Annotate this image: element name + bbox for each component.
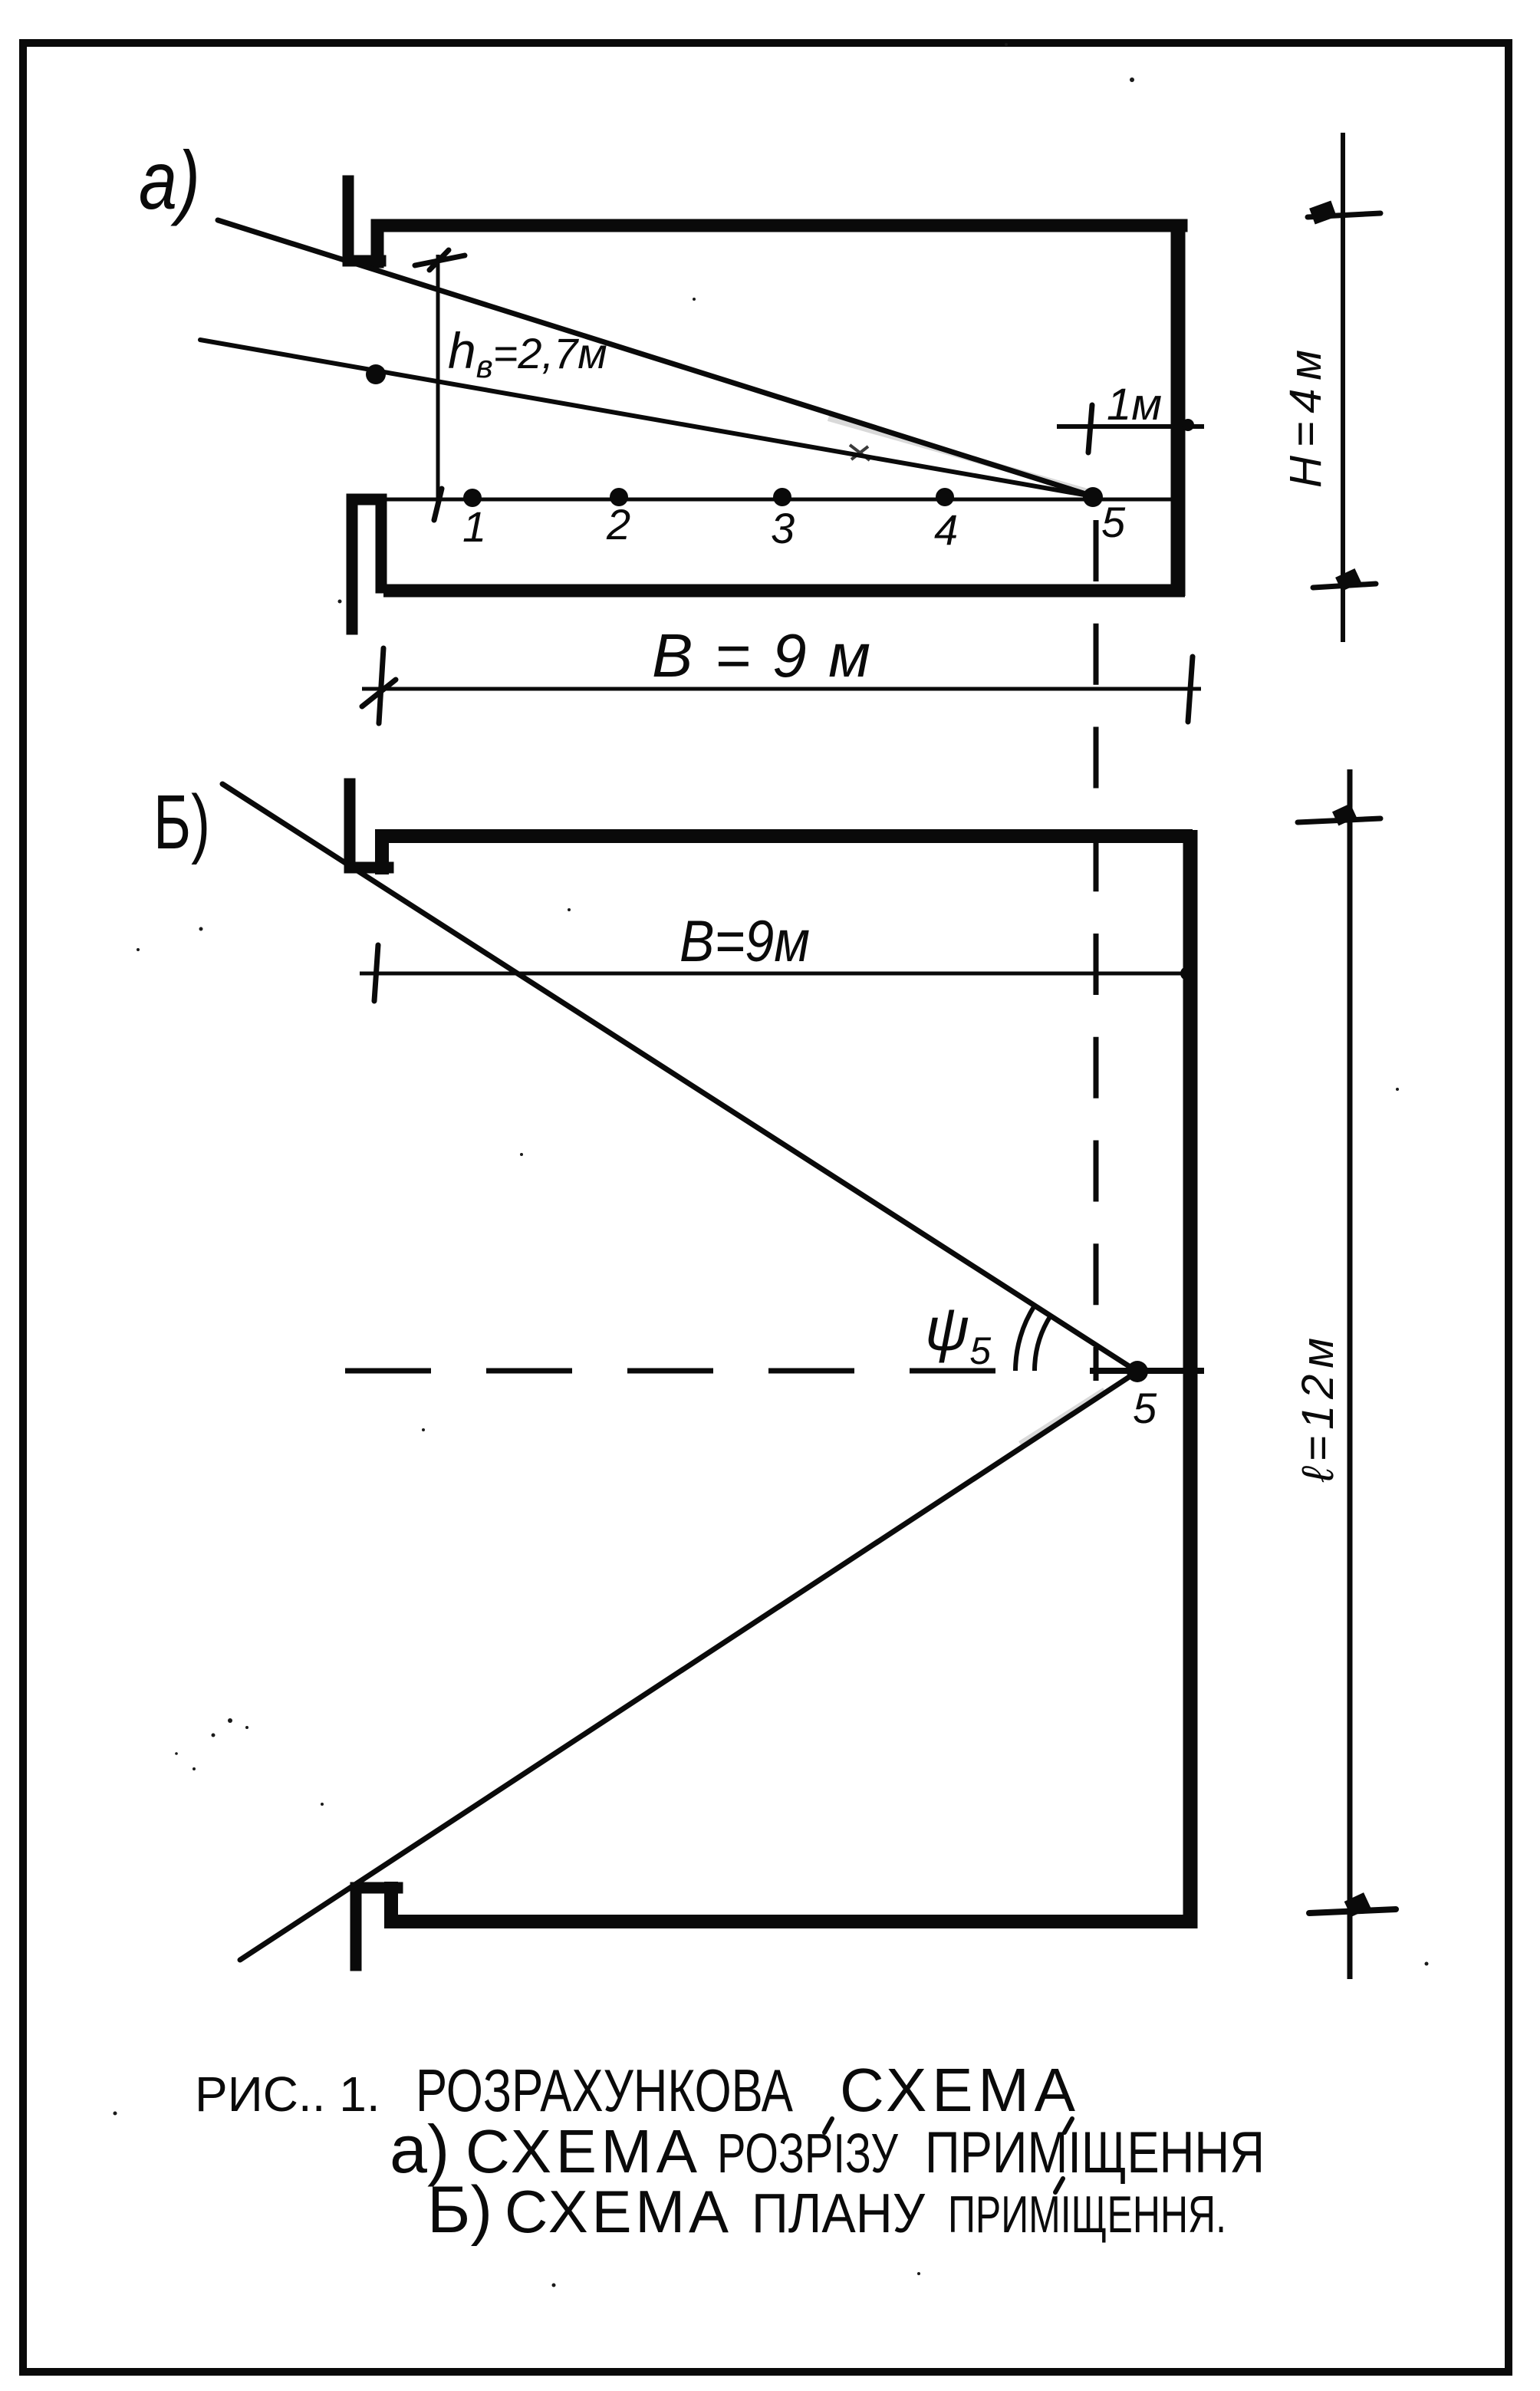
eye point dot on lower sight line [366,364,386,384]
svg-text:Б): Б) [427,2173,492,2247]
section right wall [1171,221,1186,596]
section B=9m dimension line [362,687,1201,691]
1m left tick [1088,405,1092,453]
l bottom tick [1309,1909,1396,1913]
l top tick [1298,818,1380,822]
svg-text:hв=2,7м: hв=2,7м [448,322,607,384]
section floor line [383,498,1176,502]
svg-text:а): а) [139,133,200,226]
l bottom tick blob [1344,1892,1371,1917]
angle arc outer [1015,1306,1035,1371]
1m dimension line [1057,424,1204,429]
hB bottom tick [434,489,442,520]
l top tick blob [1332,803,1357,825]
lower sight line [200,340,1093,496]
section window head jamb [348,181,380,261]
angle arc inner [1035,1316,1051,1371]
H bottom tick blob [1335,568,1361,591]
svg-text:РОЗРІЗУ: РОЗРІЗУ [717,2123,899,2185]
svg-text:Б): Б) [153,779,210,865]
svg-text:1: 1 [462,502,486,551]
plan diagonal shading [1020,1390,1104,1444]
pencil mark on lower sight line [850,445,870,460]
upper sight line [218,220,1093,496]
svg-text:ПРИМІЩЕННЯ.: ПРИМІЩЕННЯ. [948,2185,1226,2244]
svg-text:СХЕМА: СХЕМА [840,2056,1076,2124]
plan bottom wall [391,1889,1190,1922]
vertical dashed projection line [1094,520,1099,1381]
plan point 5 [1127,1361,1148,1382]
svg-text:СХЕМА: СХЕМА [505,2178,729,2245]
svg-text:ПЛАНУ: ПЛАНУ [752,2183,926,2244]
section ceiling wall [377,226,1181,262]
section floor slab [383,585,1185,598]
plan right wall [1183,830,1198,1928]
svg-text:СХЕМА: СХЕМА [466,2117,698,2185]
floor point 2 [610,488,628,506]
plan top wall [382,836,1186,868]
plan B left tick [374,945,378,1001]
plan bottom-left window jamb [356,1888,397,1965]
plan B right tick blob [1180,967,1194,980]
H top tick [1308,213,1380,217]
floor point 1 [463,489,482,507]
svg-text:5: 5 [1101,498,1126,546]
caption line 2 stress marks [824,2119,832,2132]
H bottom tick [1313,584,1376,588]
plan upper sight diagonal [222,784,1137,1372]
section B left tick [362,648,396,723]
floor point 3 [773,488,791,506]
l=12m dimension line [1347,769,1353,1979]
caption line 3 stress mark [1055,2179,1063,2192]
hB dimension line [436,255,440,505]
horizontal dashed centerline [345,1368,1037,1374]
svg-text:РОЗРАХУНКОВА: РОЗРАХУНКОВА [416,2057,793,2124]
svg-text:1м: 1м [1107,380,1162,430]
H=4m dimension line [1341,133,1345,642]
section B right tick [1188,657,1193,722]
svg-text:5: 5 [1133,1384,1157,1432]
svg-text:РИС.. 1.: РИС.. 1. [195,2067,380,2122]
svg-text:ПРИМІЩЕННЯ: ПРИМІЩЕННЯ [925,2120,1265,2185]
svg-text:2: 2 [606,500,630,548]
1m right tick blob [1182,419,1194,431]
sight line shading [828,418,1088,492]
floor point 4 [936,488,954,506]
floor point 5 [1083,487,1103,507]
plan top-left window jamb [350,784,388,868]
hB top tick [415,250,465,270]
svg-text:3: 3 [771,504,795,552]
plan B=9m dimension line [360,972,1187,976]
centerline solid segment through point 5 [1090,1368,1204,1374]
plan lower sight diagonal [240,1372,1137,1960]
section window sill wall [352,499,381,629]
svg-text:4: 4 [934,506,958,554]
svg-text:ℓ=12м: ℓ=12м [1293,1338,1343,1483]
H top tick blob [1309,201,1337,225]
svg-text:В=9м: В=9м [680,909,810,974]
